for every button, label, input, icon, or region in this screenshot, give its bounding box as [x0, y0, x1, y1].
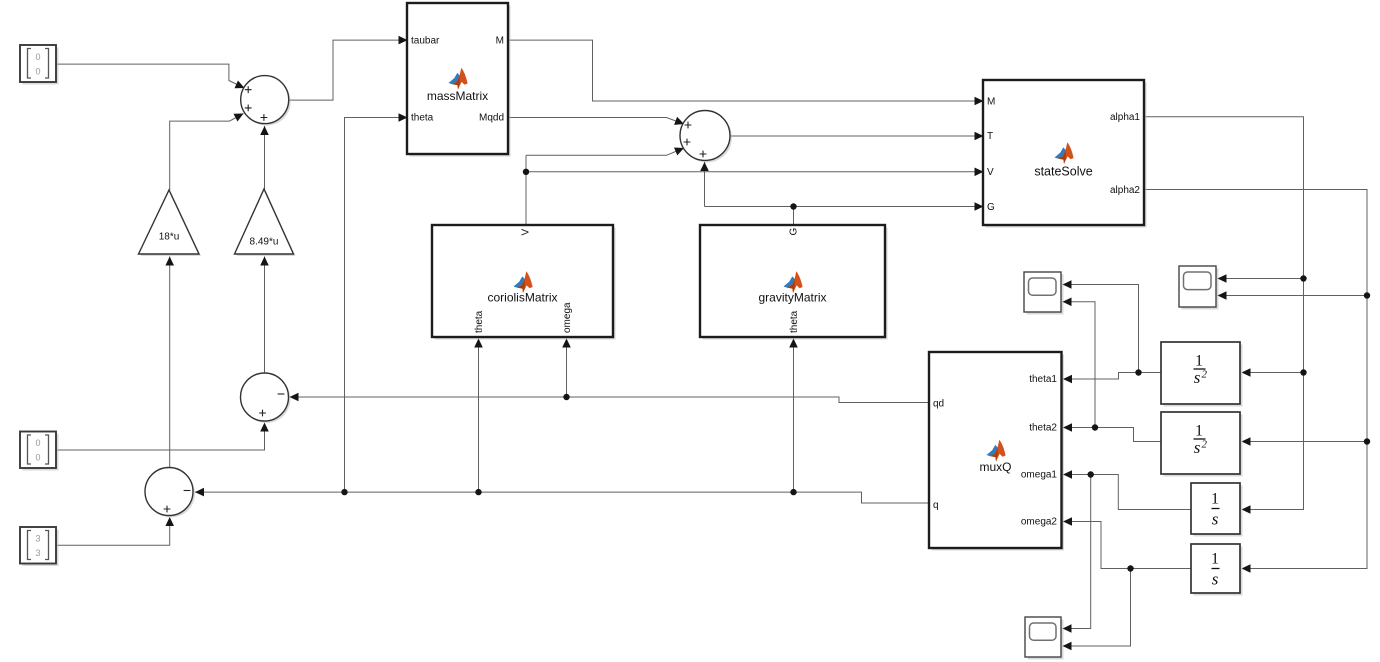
svg-text:q: q	[933, 500, 939, 511]
svg-text:taubar: taubar	[411, 36, 440, 47]
svg-text:V: V	[521, 229, 532, 236]
svg-text:qd: qd	[933, 399, 944, 410]
svg-text:8.49*u: 8.49*u	[250, 237, 279, 248]
svg-text:M: M	[987, 97, 995, 108]
svg-text:0: 0	[35, 453, 40, 463]
svg-text:muxQ: muxQ	[979, 460, 1011, 474]
svg-text:0: 0	[35, 438, 40, 448]
svg-text:2: 2	[1202, 439, 1208, 451]
svg-text:18*u: 18*u	[159, 232, 180, 243]
svg-text:s: s	[1194, 368, 1201, 387]
svg-text:M: M	[496, 36, 504, 47]
svg-text:Mqdd: Mqdd	[479, 113, 504, 124]
svg-text:s: s	[1212, 510, 1219, 529]
svg-text:theta: theta	[474, 310, 485, 333]
svg-text:theta: theta	[411, 113, 434, 124]
svg-text:3: 3	[35, 548, 40, 558]
svg-text:omega1: omega1	[1021, 470, 1058, 481]
svg-text:G: G	[987, 202, 995, 213]
svg-text:0: 0	[35, 52, 40, 62]
svg-text:coriolisMatrix: coriolisMatrix	[487, 291, 557, 305]
svg-text:theta: theta	[789, 310, 800, 333]
svg-text:gravityMatrix: gravityMatrix	[758, 291, 826, 305]
svg-text:s: s	[1212, 570, 1219, 589]
svg-text:massMatrix: massMatrix	[427, 89, 488, 103]
svg-text:alpha1: alpha1	[1110, 112, 1140, 123]
svg-text:1: 1	[1211, 551, 1219, 568]
svg-text:omega2: omega2	[1021, 517, 1058, 528]
svg-text:alpha2: alpha2	[1110, 185, 1140, 196]
svg-text:s: s	[1194, 438, 1201, 457]
svg-text:theta1: theta1	[1029, 374, 1057, 385]
svg-text:G: G	[789, 228, 800, 236]
svg-text:1: 1	[1211, 491, 1219, 508]
svg-text:0: 0	[35, 67, 40, 77]
svg-text:omega: omega	[562, 302, 573, 333]
svg-text:T: T	[987, 131, 993, 142]
svg-text:theta2: theta2	[1029, 423, 1057, 434]
svg-text:3: 3	[35, 534, 40, 544]
svg-text:2: 2	[1202, 369, 1208, 381]
svg-text:V: V	[987, 167, 994, 178]
svg-text:stateSolve: stateSolve	[1034, 165, 1092, 179]
